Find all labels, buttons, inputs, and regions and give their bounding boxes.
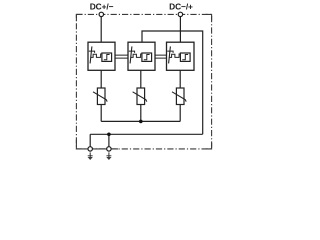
ground bus wire [90,133,203,135]
mechanical linkage S1-S2 (double line) [115,55,128,58]
switch S3 (thermal disconnector SCI) [167,42,195,70]
varistor RV2 [133,88,147,105]
junction dot ground bus [107,133,111,137]
mechanical linkage S2-S3 (double line) [155,55,167,58]
wire switch S3 to varistor RV3 [179,70,181,88]
ground symbol 1 [88,152,93,160]
ground symbol 2 [106,152,111,160]
switch S2 (thermal disconnector SCI) [128,42,155,70]
varistor RV3 [172,88,186,105]
wire varistor RV3 down to star-point bus [179,105,181,122]
enclosure dash-dot border [76,14,211,149]
wire terminal X1 to switch S1 [100,17,102,43]
svg-text:DC−/+: DC−/+ [169,1,193,11]
star-point bus wire [101,120,180,122]
terminal X2 DC-/+ [178,12,182,16]
label DC+/- [90,1,114,11]
wire varistor RV2 down to star-point bus [140,105,142,122]
wire ground bus down to terminal X3 [89,134,91,147]
terminal X4 ground [107,147,111,151]
terminal X1 DC+/- [99,12,103,16]
switch S1 (thermal disconnector SCI) [88,42,115,70]
wire terminal X2 to switch S3 (crossover, no junction) [179,17,181,43]
wire switch S2 to varistor RV2 [140,70,142,88]
wire switch S2 top to right-side drop toward ground bus [142,31,203,134]
label DC-/+ [169,1,193,11]
varistor RV1 [93,88,107,105]
wire switch S1 to varistor RV1 [100,70,102,88]
junction dot star point [139,120,143,124]
wire ground bus down to terminal X4 [108,134,110,147]
svg-text:DC+/−: DC+/− [90,1,114,11]
wire varistor RV1 down to star-point bus [100,105,102,122]
terminal X3 ground [88,147,92,151]
